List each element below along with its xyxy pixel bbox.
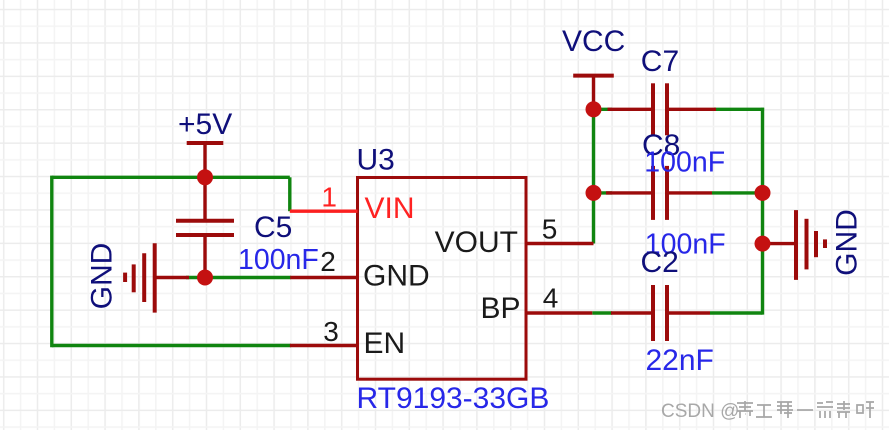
- capacitor C8 plates: [651, 166, 655, 220]
- svg-text:GND: GND: [831, 209, 864, 276]
- capacitor C2 leads: [611, 311, 652, 314]
- wire BP row right segment: [710, 311, 763, 314]
- svg-text:2: 2: [320, 246, 336, 277]
- svg-text:5: 5: [542, 214, 558, 245]
- capacitor C5 plates: [176, 219, 234, 223]
- wire row A left segment: [594, 108, 613, 111]
- power symbol VCC stem: [592, 76, 595, 110]
- op-amp/regulator IC U3 body RT9193-33GB: [358, 178, 527, 380]
- capacitor C7 plates: [651, 83, 655, 135]
- svg-text:CSDN @: CSDN @: [661, 401, 739, 422]
- wire left vertical: [50, 176, 53, 348]
- ground symbol right bars: [794, 210, 798, 280]
- wire right rail vertical x=762.5: [761, 108, 764, 315]
- svg-text:GND: GND: [363, 260, 430, 293]
- pin 5 VOUT line: [526, 242, 594, 245]
- wire from GND symbol to junction B to pin 2: [186, 276, 291, 279]
- wire row B right segment: [712, 191, 763, 194]
- watermark chinese glyphs: [737, 401, 874, 418]
- svg-text:VCC: VCC: [562, 25, 625, 58]
- svg-text:EN: EN: [364, 327, 406, 360]
- svg-text:C7: C7: [641, 45, 679, 78]
- junction B at C5 bottom: [197, 270, 213, 286]
- capacitor C8 leads: [606, 191, 652, 194]
- svg-text:3: 3: [323, 316, 339, 347]
- wire VIN corner vertical drop: [288, 177, 291, 211]
- svg-text:GND: GND: [86, 243, 119, 310]
- svg-text:C2: C2: [641, 246, 679, 279]
- svg-text:U3: U3: [357, 144, 395, 177]
- svg-text:100nF: 100nF: [644, 147, 725, 179]
- svg-text:1: 1: [321, 182, 337, 213]
- junction at VCC: [586, 101, 602, 117]
- svg-text:RT9193-33GB: RT9193-33GB: [357, 382, 550, 415]
- wire top-left horizontal from +5V junction to VIN corner: [52, 176, 290, 179]
- capacitor C5 top lead: [203, 177, 206, 219]
- ground symbol right stub: [763, 242, 797, 245]
- svg-text:+5V: +5V: [178, 108, 232, 141]
- svg-text:100nF: 100nF: [238, 244, 319, 276]
- wire VCC rail vertical x=593.5: [592, 109, 595, 243]
- svg-text:VOUT: VOUT: [435, 226, 518, 259]
- wire row A right segment to right rail: [714, 108, 764, 111]
- svg-text:C5: C5: [254, 211, 292, 244]
- svg-text:VIN: VIN: [365, 192, 415, 225]
- wire bottom-left horizontal to EN pin: [52, 344, 291, 347]
- power symbol +5V stem: [203, 143, 206, 177]
- watermark CSDN: [661, 401, 739, 422]
- pin 4 BP line: [526, 311, 592, 314]
- wire BP row left green segment: [592, 311, 612, 314]
- junction right GND: [755, 236, 771, 252]
- wire row B left segment: [594, 191, 613, 194]
- ground symbol left stub: [155, 276, 189, 279]
- power symbol VCC bar: [573, 74, 614, 78]
- pin 1 VIN line (highlighted red): [290, 209, 358, 212]
- capacitor C5 bottom lead: [203, 237, 206, 278]
- pin 3 EN line: [290, 344, 358, 347]
- pin 2 GND line: [290, 276, 357, 279]
- ground symbol left bars: [153, 243, 157, 312]
- svg-text:BP: BP: [480, 292, 520, 325]
- power symbol +5V bar: [187, 141, 224, 145]
- junction row B left: [586, 185, 602, 201]
- svg-text:4: 4: [543, 283, 559, 314]
- junction row B right: [755, 185, 771, 201]
- junction A at +5V: [197, 169, 213, 185]
- capacitor C2 plates: [651, 285, 655, 341]
- svg-text:22nF: 22nF: [646, 344, 714, 377]
- capacitor C7 leads: [608, 108, 652, 111]
